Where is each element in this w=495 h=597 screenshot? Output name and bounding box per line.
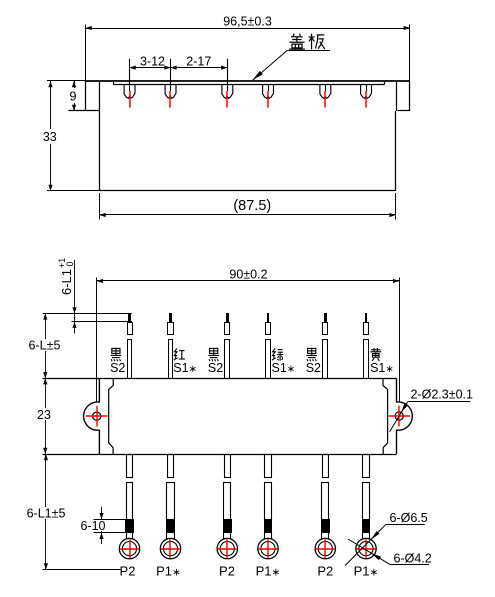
bottom view: right mounting hole bbox=[395, 412, 403, 420]
bottom view: right hole crosshair bbox=[389, 415, 411, 417]
bottom view: left notch line bbox=[109, 378, 114, 454]
dimension 6-L±5 bbox=[45, 313, 47, 378]
upper terminal 5 bbox=[324, 313, 327, 322]
top view: terminal clip 1 bbox=[124, 85, 135, 98]
upper terminal 6 bbox=[365, 313, 367, 322]
svg-text:6-Ø4.2: 6-Ø4.2 bbox=[394, 552, 432, 566]
svg-text:6-Ø6.5: 6-Ø6.5 bbox=[390, 511, 428, 525]
dimension 23 bbox=[45, 378, 47, 454]
lower terminal 4 bbox=[265, 455, 272, 478]
upper terminal 1 bbox=[128, 323, 133, 335]
wire label 黄 S1* terminal 6 bbox=[370, 348, 381, 361]
wire label 黑 S2 terminal 3 bbox=[208, 348, 219, 361]
top view: terminal pin 3 red tip bbox=[226, 91, 228, 108]
top view: terminal pin 1 bbox=[129, 59, 131, 91]
wire label 绿 S1* terminal 4 bbox=[272, 348, 276, 360]
dimension 90±0.2 bbox=[96, 278, 98, 403]
upper terminal 2 bbox=[169, 313, 172, 322]
dimension 6-L1±5 bbox=[45, 454, 47, 569]
dimension (87.5) bbox=[99, 193, 101, 220]
ring terminal 4 crosshair bbox=[258, 548, 277, 550]
label 6-Ø4.2 with leader bbox=[391, 564, 429, 566]
wire label 黑 S2 terminal 1 bbox=[111, 348, 122, 361]
svg-text:33: 33 bbox=[43, 130, 57, 144]
svg-text:S2: S2 bbox=[306, 361, 321, 375]
svg-text:96,5±0.3: 96,5±0.3 bbox=[223, 15, 272, 29]
dimension 96,5±0.3 bbox=[409, 25, 411, 81]
dimension 9 bbox=[74, 81, 76, 111]
svg-text:S1∗: S1∗ bbox=[370, 361, 394, 375]
top view: body left edge bbox=[99, 81, 101, 191]
dimension 2-17 bbox=[171, 66, 177, 70]
top view: terminal pin 4 red tip bbox=[267, 91, 269, 108]
ring terminal 1 crosshair bbox=[120, 548, 139, 550]
label 盖板 (cover plate) with leader bbox=[289, 34, 305, 50]
svg-text:6-L±5: 6-L±5 bbox=[29, 339, 61, 353]
lower terminal 3 bbox=[225, 455, 231, 478]
svg-text:P1∗: P1∗ bbox=[354, 564, 379, 579]
svg-text:S2: S2 bbox=[110, 361, 125, 375]
label 6-Ø6.5 with leader bbox=[386, 524, 425, 526]
bottom view: left hole crosshair bbox=[86, 415, 108, 417]
ring terminal 4 bbox=[258, 538, 278, 558]
top view: right mounting ear bbox=[409, 81, 411, 111]
terminal 1 bent tab (bar) bbox=[43, 313, 132, 315]
ring terminal 1 bbox=[119, 538, 139, 558]
top view: terminal pin 4 bbox=[268, 85, 270, 91]
svg-text:S2: S2 bbox=[208, 361, 223, 375]
top view: terminal clip 3 bbox=[222, 85, 233, 98]
svg-text:P2: P2 bbox=[120, 564, 136, 579]
top view: cover plate bottom line bbox=[114, 84, 385, 86]
top view: terminal pin 2 red tip bbox=[169, 91, 171, 108]
ring terminal 2 bbox=[160, 538, 180, 558]
svg-text:S1∗: S1∗ bbox=[272, 361, 296, 375]
ring terminal 5 crosshair bbox=[316, 548, 335, 550]
svg-text:9: 9 bbox=[70, 90, 77, 104]
top view: terminal pin 6 bbox=[366, 85, 368, 91]
top view: cover plate top line bbox=[86, 80, 411, 82]
top view: terminal clip 2 bbox=[165, 85, 176, 98]
svg-text:90±0.2: 90±0.2 bbox=[229, 268, 267, 282]
top view: terminal pin 3 bbox=[227, 59, 229, 91]
ring terminal 3 bbox=[217, 538, 237, 558]
svg-text:P2: P2 bbox=[317, 564, 333, 579]
wire label 黑 S2 terminal 5 bbox=[306, 348, 317, 361]
svg-text:(87.5): (87.5) bbox=[233, 198, 271, 214]
dimension 3-12 bbox=[130, 67, 228, 69]
bottom view: right notch line bbox=[383, 378, 388, 454]
top view: terminal pin 1 red tip bbox=[129, 91, 131, 108]
bottom view: body right edge with ear bbox=[397, 378, 413, 454]
top view: terminal clip 4 bbox=[263, 85, 274, 98]
bottom view: body top line bbox=[43, 378, 397, 380]
svg-text:P1∗: P1∗ bbox=[156, 564, 181, 579]
svg-text:2-17: 2-17 bbox=[186, 55, 211, 69]
svg-text:P1∗: P1∗ bbox=[256, 564, 281, 579]
ring terminal 2 crosshair bbox=[161, 548, 180, 550]
bottom view: body bottom line bbox=[43, 454, 397, 456]
wire label 红 S1* terminal 2 bbox=[174, 348, 178, 360]
label 2-Ø2.3±0.1 with leader bbox=[408, 401, 471, 403]
lower terminal 5 bbox=[323, 455, 329, 478]
ring terminal 5 bbox=[315, 538, 335, 558]
svg-text:0: 0 bbox=[65, 261, 75, 266]
top view: terminal clip 6 bbox=[361, 85, 372, 98]
top view: left mounting ear bbox=[85, 81, 87, 111]
svg-text:2-Ø2.3±0.1: 2-Ø2.3±0.1 bbox=[411, 387, 473, 401]
top view: body bottom line bbox=[100, 190, 396, 192]
top view: terminal pin 2 bbox=[170, 59, 172, 91]
svg-text:23: 23 bbox=[37, 408, 51, 422]
top view: terminal pin 5 bbox=[325, 85, 327, 91]
lower terminal 2 bbox=[168, 455, 174, 478]
bottom view: body left edge with ear bbox=[84, 378, 100, 454]
lower terminal 1 bbox=[127, 455, 133, 478]
bottom view: left mounting hole bbox=[93, 412, 101, 420]
ring terminal 3 crosshair bbox=[218, 548, 237, 550]
dimension 6-L1 +1/0 (rotated) bbox=[74, 260, 76, 334]
ring terminal 6 bbox=[356, 538, 376, 558]
top view: terminal pin 6 red tip bbox=[365, 91, 367, 108]
svg-text:3-12: 3-12 bbox=[140, 55, 165, 69]
svg-text:6-L1: 6-L1 bbox=[59, 269, 74, 295]
svg-text:6-L1±5: 6-L1±5 bbox=[27, 507, 66, 521]
svg-text:P2: P2 bbox=[219, 564, 235, 579]
upper terminal 4 bbox=[267, 313, 269, 322]
svg-text:S1∗: S1∗ bbox=[173, 361, 197, 375]
svg-text:6-10: 6-10 bbox=[80, 519, 105, 533]
dimension 6-10 bbox=[94, 519, 126, 521]
ring terminal 6 crosshair bbox=[356, 548, 375, 550]
top view: terminal clip 5 bbox=[320, 85, 331, 98]
lower terminal 6 bbox=[363, 455, 370, 478]
top view: terminal pin 5 red tip bbox=[324, 91, 326, 108]
dimension 33 bbox=[47, 80, 86, 82]
top view: body right edge bbox=[395, 111, 397, 191]
upper terminal 3 bbox=[226, 313, 229, 322]
